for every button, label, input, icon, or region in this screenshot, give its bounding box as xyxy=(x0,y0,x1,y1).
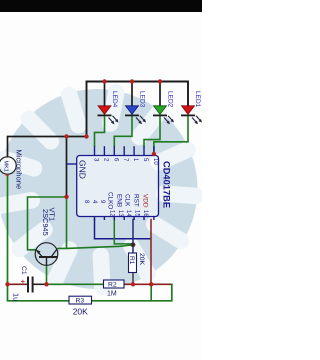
svg-text:R3: R3 xyxy=(76,298,85,305)
bottom pin numbers/names xyxy=(83,192,149,217)
svg-text:RST: RST xyxy=(133,194,140,207)
resistor R2 xyxy=(104,280,125,298)
wire: green from dot to R2 xyxy=(47,283,105,285)
wire: C1 right segment to transistor base dot xyxy=(34,283,47,285)
svg-text:CD4017BE: CD4017BE xyxy=(162,161,172,208)
pins bottom xyxy=(95,217,154,221)
junction: emitter to C1/R2 line xyxy=(44,282,48,286)
wire: C1 left segment xyxy=(8,283,27,285)
pins top xyxy=(95,146,154,155)
svg-text:13: 13 xyxy=(117,210,123,217)
wire: LED4 to pin xyxy=(95,116,105,147)
junction: rail drop to gnd line xyxy=(84,134,88,138)
svg-text:CLK: CLK xyxy=(124,194,131,207)
svg-text:LED1: LED1 xyxy=(194,91,201,108)
svg-text:GND: GND xyxy=(78,160,88,179)
watermark logo circle xyxy=(0,83,204,296)
collector xyxy=(52,248,58,256)
junction: rail to LED4 anode xyxy=(102,79,106,83)
svg-text:CLKO: CLKO xyxy=(107,192,114,209)
svg-text:14: 14 xyxy=(125,210,131,217)
wire: red RST vertical xyxy=(150,220,152,285)
wire: black vertical x=67.8 xyxy=(66,137,68,197)
wire: base down from transistor xyxy=(46,265,48,284)
svg-text:ENB: ENB xyxy=(116,194,123,207)
LED2 xyxy=(153,82,174,125)
junction: left wire to C1 line xyxy=(5,282,9,286)
svg-text:MK1: MK1 xyxy=(3,161,9,172)
wire: navy L from pin 94.5 xyxy=(95,220,151,239)
svg-text:+: + xyxy=(3,174,9,178)
capacitor C1 xyxy=(12,266,33,301)
junction: RST wire to R2 line xyxy=(149,282,153,286)
svg-text:12: 12 xyxy=(109,210,115,217)
junction: LED1 wire at IC pin xyxy=(152,152,156,156)
top pin numbers xyxy=(93,158,158,165)
resistor R1 xyxy=(128,253,145,273)
LED green routes xyxy=(95,116,189,154)
junction: base net branch xyxy=(64,195,68,199)
svg-text:20K: 20K xyxy=(73,307,88,317)
svg-text:1u: 1u xyxy=(12,293,21,301)
pin 8 GND stub left xyxy=(67,163,77,165)
IC U1 CD4017BE body xyxy=(67,146,159,220)
LED4 xyxy=(98,82,119,125)
wire: green below dot2 xyxy=(150,284,152,301)
resistor R3 xyxy=(69,296,92,316)
LED1 xyxy=(181,91,202,124)
svg-text:LED4: LED4 xyxy=(111,91,118,108)
IC text xyxy=(78,158,172,217)
svg-text:15: 15 xyxy=(134,210,140,217)
LED3 xyxy=(125,82,146,125)
emitter with arrow xyxy=(37,250,42,256)
wire: top supply rail xyxy=(87,82,189,137)
svg-text:R2: R2 xyxy=(108,282,117,289)
black status bar xyxy=(0,0,202,12)
wire: green junction down to collector line xyxy=(66,197,68,249)
wire: green base route xyxy=(28,197,67,250)
wire: LED1 to pin xyxy=(154,116,188,154)
svg-text:LED3: LED3 xyxy=(139,91,146,108)
wire: LED3 to pin xyxy=(114,116,132,147)
wire: collector green to R1 dot xyxy=(59,245,134,249)
microphone MK1 xyxy=(0,157,16,178)
junction: collector node at R1 top xyxy=(131,242,136,247)
wire: left vertical below mic xyxy=(8,174,70,301)
svg-text:20K: 20K xyxy=(138,253,145,266)
junction: R1 bottom to R2 line xyxy=(131,282,135,286)
svg-text:1M: 1M xyxy=(107,291,117,298)
svg-text:LED2: LED2 xyxy=(167,91,174,108)
svg-text:10: 10 xyxy=(152,158,158,165)
junction: rail to LED3 anode xyxy=(130,79,134,83)
wire: mic/gnd horizontal y=136.5 xyxy=(8,137,87,157)
svg-text:VDD: VDD xyxy=(142,194,149,208)
junction: gnd line branch xyxy=(64,134,68,138)
wire: right green loop xyxy=(92,284,172,301)
wire: R1 chain vertical xyxy=(132,220,134,253)
svg-text:16: 16 xyxy=(142,210,148,217)
wire: R2 right red segment with dots xyxy=(125,283,172,285)
svg-text:2SC945: 2SC945 xyxy=(41,209,50,236)
svg-text:Microphone: Microphone xyxy=(15,150,24,190)
wire: green pin 114.3 down xyxy=(114,220,131,244)
svg-text:C1: C1 xyxy=(20,266,27,275)
label VT1 2SC945 xyxy=(41,208,57,236)
svg-text:+: + xyxy=(19,280,26,284)
svg-text:R1: R1 xyxy=(128,256,135,265)
wire: LED2 to pin xyxy=(144,116,160,147)
transistor VT1 xyxy=(35,243,58,266)
junction: rail to LED2 anode xyxy=(158,79,162,83)
